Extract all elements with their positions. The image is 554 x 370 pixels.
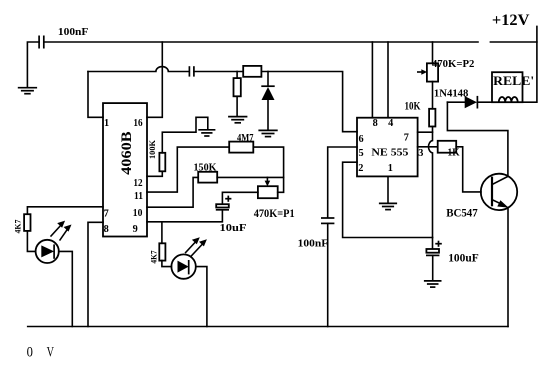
wire U1 pin7 to R6 [27, 207, 103, 214]
relay K1 coil [499, 97, 518, 102]
svg-text:7: 7 [104, 209, 109, 220]
wire U2 pin2 loop to C5 node [343, 162, 433, 237]
svg-text:1N4148: 1N4148 [434, 87, 469, 99]
ground under C5 [424, 281, 442, 287]
resistor R5 150K body [198, 172, 217, 183]
plus sign C5 [435, 241, 442, 247]
wire U2 pin1 to ground [387, 176, 389, 203]
svg-text:1: 1 [104, 118, 109, 129]
transistor Q1 BC547 circle [481, 174, 517, 210]
wire R7 to LED2 [162, 261, 172, 267]
wire D4 anode node [447, 101, 464, 103]
wire rail to P2 [432, 42, 434, 63]
wire relay to +12V column [523, 26, 537, 102]
wire U2 pin7 to 10K column [418, 131, 433, 133]
svg-text:4K7: 4K7 [150, 250, 159, 263]
resistor R9 1K body [438, 141, 457, 153]
svg-text:470K=P2: 470K=P2 [432, 58, 475, 70]
svg-text:1: 1 [388, 163, 393, 174]
wire C1 to ground corner [27, 42, 39, 87]
wire LED2 to bottom rail [196, 267, 207, 327]
capacitor C5 100uF top plate [426, 249, 439, 253]
wire Q1 emitter to bottom rail [507, 208, 509, 327]
capacitor C1 100nF left plate [38, 36, 40, 49]
capacitor C1 100nF right plate [43, 36, 45, 49]
svg-text:NE 555: NE 555 [371, 146, 409, 158]
plus sign C3 [225, 196, 231, 202]
capacitor C4 100nF top plate [321, 217, 334, 219]
svg-text:10uF: 10uF [220, 223, 247, 234]
wire U2 pin5 to C4 [328, 147, 357, 218]
IC U1 4060B body [103, 103, 147, 236]
wire R5 right to P1 wiper node [217, 176, 283, 178]
svg-text:9: 9 [133, 224, 138, 235]
resistor R3 100K body [159, 153, 165, 172]
LED D3 circle [171, 254, 195, 278]
svg-text:150K: 150K [194, 161, 217, 173]
wire top supply rail left segment [44, 41, 478, 43]
wire 100K top zigzag to ground [162, 117, 208, 153]
wire R1 to pin6 riser of U2 [261, 72, 357, 132]
potentiometer P1 wiper arrow [266, 177, 268, 181]
wire U1 pin11 to 4M7 [147, 147, 229, 192]
svg-text:470K=P1: 470K=P1 [254, 206, 295, 220]
wire pin1 net horizontal with hop over pin16 riser [88, 67, 189, 72]
wire U1 pin8 to bottom rail [88, 222, 103, 326]
capacitor C2 left plate [188, 66, 190, 76]
wire LED1 to bottom rail [59, 251, 73, 326]
wire U2 pin4 riser to rail [387, 42, 389, 118]
resistor R8 10K body [429, 109, 435, 127]
svg-text:4K7: 4K7 [14, 220, 23, 234]
relay K1 box [492, 72, 523, 102]
wire drop to R7 LED2 branch [161, 222, 163, 244]
svg-text:8: 8 [373, 118, 378, 129]
wire C5 node to capacitor [432, 238, 434, 250]
wire C2 to resistor R1 [194, 71, 243, 73]
LED D3 cathode bar [188, 260, 190, 274]
svg-text:1K: 1K [448, 147, 460, 158]
capacitor C2 right plate [193, 66, 195, 76]
svg-text:4060B: 4060B [119, 131, 135, 175]
wire U1 pin10 to 150K [147, 177, 198, 207]
wire R2 to ground [236, 96, 238, 116]
wire D4 cathode to relay [477, 101, 492, 103]
svg-text:11: 11 [134, 191, 143, 202]
svg-text:100nF: 100nF [298, 237, 329, 249]
transistor Q1 base bar [491, 177, 493, 207]
wire junction drop to R2 [236, 72, 238, 79]
wire top supply rail right segment [490, 41, 537, 43]
wire D1 anode to ground [267, 100, 269, 130]
LED D2 circle [36, 240, 59, 263]
wire C3 bottom to U1 pin9 [147, 210, 222, 222]
svg-text:0: 0 [27, 344, 33, 360]
transistor Q1 emitter line with arrow [492, 200, 503, 205]
wire R6 to LED1 [27, 231, 35, 252]
svg-text:12: 12 [133, 178, 142, 189]
diode D1 cathode bar [261, 85, 274, 87]
potentiometer P2 body [427, 63, 438, 81]
wire R3 bottom to U1 pin12 [147, 171, 162, 176]
ground under C1 [18, 88, 37, 94]
wire U1 pin16 to riser [147, 42, 162, 117]
wire P1 left to C3 top [222, 192, 258, 204]
svg-text:5: 5 [359, 148, 364, 159]
svg-text:3: 3 [418, 148, 423, 159]
svg-text:7: 7 [404, 133, 409, 144]
potentiometer P2 wiper arrow [418, 71, 422, 73]
LED D3 arrows [186, 237, 207, 255]
svg-text:10: 10 [133, 208, 143, 219]
wire C4 to bottom rail [327, 223, 329, 326]
wire bottom 0V rail [28, 326, 508, 328]
svg-text:2: 2 [358, 163, 363, 174]
resistor R4 4M7 body [229, 142, 253, 153]
LED D2 arrows [51, 221, 72, 240]
svg-text:4: 4 [388, 118, 393, 129]
ground under R2 [228, 117, 247, 123]
svg-text:100uF: 100uF [448, 253, 479, 265]
wire D4 anode to Q1 collector [447, 102, 508, 176]
LED D3 triangle [178, 261, 189, 273]
svg-text:BC547: BC547 [446, 206, 478, 220]
svg-text:V: V [47, 344, 55, 360]
svg-text:8: 8 [104, 224, 109, 235]
svg-text:+12V: +12V [492, 12, 530, 29]
svg-text:100K: 100K [148, 139, 157, 159]
svg-text:4M7: 4M7 [237, 133, 254, 144]
svg-text:6: 6 [359, 134, 364, 145]
diode D1 triangle [262, 87, 275, 100]
resistor R6 4K7 body [24, 214, 30, 231]
svg-text:RELE': RELE' [493, 74, 534, 88]
capacitor C3 10uF top plate [216, 204, 229, 207]
svg-text:16: 16 [133, 118, 142, 129]
resistor R2 body [234, 78, 241, 96]
resistor R7 4K7 body [159, 243, 165, 260]
wire C5 to ground [432, 255, 434, 280]
resistor R1 body [243, 66, 261, 77]
ground under U2 pin1 [379, 203, 397, 209]
wire P2 to R8 [432, 82, 434, 109]
wire R4 right to P1 right branch [253, 147, 283, 192]
wire R8 down with hop over pin3 wire [428, 127, 432, 238]
ground under D1 [258, 130, 277, 136]
wire R9 to Q1 base [456, 147, 481, 192]
potentiometer P1 body [258, 186, 278, 198]
transistor Q1 collector line [492, 177, 508, 185]
diode D4 triangle [465, 96, 477, 108]
LED D2 cathode bar [53, 244, 55, 258]
wire U1 pin1 to left riser [88, 72, 103, 118]
wire U2 pin8 riser to rail [371, 42, 373, 118]
capacitor C3 10uF bottom plate [216, 209, 229, 211]
svg-text:100nF: 100nF [58, 26, 89, 38]
svg-text:10K: 10K [405, 100, 421, 112]
LED D2 triangle [41, 245, 54, 257]
ground at zigzag [198, 130, 215, 136]
wire U2 pin3 to 1K [418, 146, 438, 148]
capacitor C4 100nF bottom plate [321, 222, 334, 224]
capacitor C5 100uF bottom plate [426, 254, 439, 256]
wire junction drop to D1 [267, 72, 269, 87]
diode D4 cathode bar [476, 96, 478, 109]
IC U2 NE555 body [357, 118, 418, 177]
